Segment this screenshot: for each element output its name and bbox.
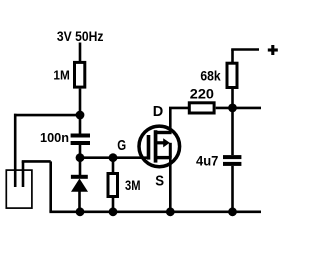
node junction B [109, 153, 118, 162]
mosfet channel bar [154, 130, 158, 162]
svg-text:4u7: 4u7 [196, 153, 219, 169]
wire E2 horizontal [22, 160, 51, 163]
wire drain to R3 [169, 107, 189, 110]
wire R3 to junction R [216, 107, 261, 110]
svg-text:100n: 100n [40, 130, 69, 145]
svg-text:D: D [153, 104, 164, 120]
resistor R3 220 [189, 103, 214, 113]
mosfet gate bar [147, 135, 151, 160]
wire drain up [169, 108, 172, 133]
mosfet drain stub [157, 131, 172, 134]
node bottom B [109, 207, 118, 216]
resistor R2 3M [108, 174, 118, 197]
wire source down [169, 158, 172, 212]
node junction R [228, 104, 237, 113]
bottom rail wire [49, 211, 261, 214]
svg-text:3M: 3M [125, 178, 141, 193]
node bottom right [228, 207, 237, 216]
wire junction R down to C2 [231, 108, 234, 155]
svg-text:68k: 68k [200, 68, 221, 83]
resistor R4 68k [227, 63, 237, 87]
electrode container box [6, 170, 32, 208]
wire diode to bottom rail [78, 192, 81, 213]
wire junction B down to R2 [112, 158, 115, 173]
wire left vertical electrode E1 [14, 114, 17, 187]
diode D1 triangle [71, 179, 88, 192]
resistor R1 1M [75, 62, 85, 87]
capacitor C2 4u7 [223, 155, 241, 159]
wire E2 down to bottom rail [49, 161, 52, 211]
wire source to R1 top [79, 43, 82, 63]
mosfet body arrow [163, 138, 170, 147]
wire gate horizontal [80, 156, 147, 159]
mosfet body-source connector [169, 143, 172, 158]
svg-text:1M: 1M [53, 68, 69, 83]
wire to plus terminal [231, 48, 259, 51]
svg-text:G: G [117, 138, 126, 154]
wire top horizontal to electrode [14, 114, 81, 117]
mosfet body stub [157, 141, 164, 144]
diode D1 cathode bar [71, 175, 88, 179]
mosfet source stub [157, 156, 172, 159]
svg-text:220: 220 [190, 86, 214, 101]
node junction A [76, 111, 85, 120]
plus terminal symbol [268, 48, 278, 51]
node bottom source [166, 207, 175, 216]
node gate junction [76, 153, 85, 162]
capacitor C1 100n [71, 134, 90, 138]
wire R1 bottom to C1 top [79, 89, 82, 134]
mosfet T1 body circle [139, 126, 180, 167]
svg-text:3V 50Hz: 3V 50Hz [57, 28, 104, 44]
wire R2 to bottom rail [112, 198, 115, 213]
svg-text:S: S [155, 173, 164, 189]
electrode E2 [22, 161, 25, 187]
node bottom A [76, 207, 85, 216]
wire C2 to bottom rail [231, 166, 234, 212]
wire R4 top [231, 50, 234, 64]
wire C1 bottom to diode [79, 145, 82, 175]
wire junction R up to R4 [231, 89, 234, 108]
